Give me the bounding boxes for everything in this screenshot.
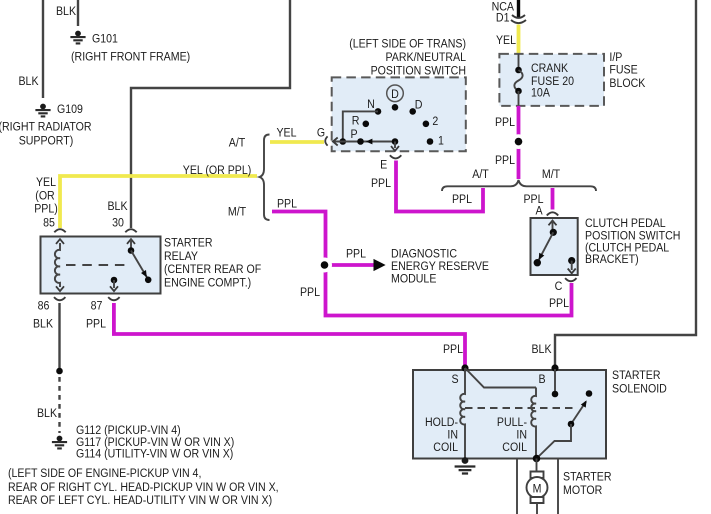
contact D center bbox=[392, 104, 399, 111]
fuse lead top bbox=[518, 54, 520, 70]
svg-text:87: 87 bbox=[91, 298, 103, 312]
fuse terminal top bbox=[515, 67, 522, 74]
svg-text:G: G bbox=[317, 126, 325, 140]
motor feed left bbox=[516, 459, 518, 514]
motor brush top bbox=[531, 472, 544, 479]
svg-text:10A: 10A bbox=[531, 86, 551, 100]
svg-text:COIL: COIL bbox=[433, 440, 458, 454]
contact P bbox=[357, 138, 364, 145]
B stub end bbox=[552, 391, 559, 398]
connector pin 85 bbox=[54, 229, 65, 232]
svg-text:YEL (OR PPL): YEL (OR PPL) bbox=[183, 163, 252, 177]
svg-text:STARTER: STARTER bbox=[164, 236, 213, 250]
contact C shaft bbox=[571, 261, 573, 270]
solenoid box bbox=[413, 370, 606, 459]
circle D indicator bbox=[387, 85, 404, 102]
solenoid switch link bbox=[537, 424, 572, 459]
fuse terminal bottom bbox=[515, 88, 522, 95]
svg-text:COIL: COIL bbox=[502, 440, 527, 454]
svg-text:B: B bbox=[538, 372, 545, 386]
clutch blade bbox=[539, 232, 553, 259]
solenoid pivot bbox=[568, 421, 575, 428]
S to pull-in link bbox=[465, 368, 536, 388]
svg-text:PPL: PPL bbox=[443, 342, 463, 356]
motor body M bbox=[527, 477, 548, 498]
svg-text:PPL: PPL bbox=[86, 317, 106, 331]
svg-text:A/T: A/T bbox=[229, 136, 246, 150]
svg-text:86: 86 bbox=[38, 298, 50, 312]
svg-text:BLOCK: BLOCK bbox=[609, 76, 646, 90]
relay blade bbox=[131, 251, 148, 280]
wire YEL (OR PPL) bbox=[60, 176, 257, 228]
svg-text:S: S bbox=[451, 372, 458, 386]
svg-text:ENGINE COMPT.): ENGINE COMPT.) bbox=[164, 276, 251, 290]
svg-text:BLK: BLK bbox=[37, 406, 58, 420]
svg-text:PPL: PPL bbox=[277, 197, 297, 211]
contact N-P junction bbox=[340, 138, 347, 145]
svg-text:(LEFT SIDE OF ENGINE-PICKUP VI: (LEFT SIDE OF ENGINE-PICKUP VIN 4, bbox=[8, 466, 201, 480]
svg-text:M: M bbox=[533, 482, 542, 496]
svg-text:PPL: PPL bbox=[371, 176, 391, 190]
svg-text:D: D bbox=[391, 87, 399, 101]
svg-text:FUSE: FUSE bbox=[609, 63, 637, 77]
svg-text:REAR OF RIGHT CYL. HEAD-PICKUP: REAR OF RIGHT CYL. HEAD-PICKUP VIN W OR … bbox=[8, 480, 279, 494]
relay blade arrow bbox=[141, 270, 147, 277]
contact 87 shaft bbox=[113, 280, 115, 288]
connector pin 30 bbox=[125, 229, 136, 232]
svg-text:(RIGHT RADIATOR: (RIGHT RADIATOR bbox=[0, 120, 92, 134]
svg-text:85: 85 bbox=[43, 216, 55, 230]
junction splice DERM bbox=[321, 261, 329, 269]
wiper arrow left bbox=[366, 139, 373, 145]
B stub bbox=[554, 369, 556, 394]
pull-in coil bbox=[531, 388, 536, 459]
svg-text:SOLENOID: SOLENOID bbox=[612, 382, 667, 396]
junction B bbox=[551, 364, 558, 371]
svg-text:R: R bbox=[352, 114, 360, 128]
clutch blade arrow bbox=[539, 253, 545, 260]
wire BLK dashed ground bbox=[58, 377, 60, 433]
wire BLK to relay 30 bbox=[131, 0, 290, 228]
svg-text:D1: D1 bbox=[496, 11, 510, 25]
fuse lead bottom bbox=[518, 91, 520, 106]
svg-text:PPL): PPL) bbox=[34, 202, 58, 216]
connector pin 87 bbox=[108, 297, 119, 300]
connector pin C bbox=[565, 278, 576, 281]
clutch switch box bbox=[531, 218, 578, 275]
relay contact 87 bbox=[111, 277, 118, 284]
svg-text:PPL: PPL bbox=[346, 247, 366, 261]
svg-text:BLK: BLK bbox=[532, 342, 553, 356]
solenoid blade bbox=[571, 402, 586, 425]
brace A/T-M/T top bbox=[442, 180, 596, 191]
wire PPL M/T trunk bbox=[272, 212, 572, 316]
contact N bbox=[375, 108, 382, 115]
connector pin A bbox=[547, 212, 558, 215]
wire N branch bbox=[343, 111, 378, 141]
pin30 shaft bbox=[130, 239, 132, 250]
svg-text:(RIGHT FRONT FRAME): (RIGHT FRONT FRAME) bbox=[71, 50, 190, 64]
svg-text:(CENTER REAR OF: (CENTER REAR OF bbox=[164, 262, 262, 276]
splice halo bbox=[317, 258, 332, 273]
connector D1 lower bbox=[511, 20, 526, 23]
svg-text:D: D bbox=[415, 98, 423, 112]
svg-text:MODULE: MODULE bbox=[391, 272, 436, 286]
splice PPL bbox=[515, 138, 523, 146]
wire YEL to fuse bbox=[517, 25, 521, 55]
contact R bbox=[363, 121, 370, 128]
wire PPL 87 to S bbox=[114, 303, 465, 366]
relay blade end bbox=[145, 277, 152, 284]
pin 87 arrow bbox=[110, 286, 118, 291]
PNP switch box bbox=[332, 77, 466, 151]
arrow to DERM bbox=[374, 260, 385, 271]
connector G arc bbox=[325, 136, 327, 145]
svg-text:BLK: BLK bbox=[19, 74, 40, 88]
wire PPL fuse out bbox=[517, 106, 521, 179]
svg-text:RELAY: RELAY bbox=[164, 249, 198, 263]
ground G112/G117/G114 bbox=[52, 436, 67, 449]
motor lead bottom bbox=[536, 503, 538, 514]
wire E drop bbox=[394, 142, 396, 149]
contact D right bbox=[409, 108, 416, 115]
svg-text:C: C bbox=[555, 279, 563, 293]
svg-text:E: E bbox=[380, 157, 387, 171]
junction 86 ground bbox=[56, 368, 63, 375]
wire YEL A/T to G bbox=[270, 140, 324, 144]
wire BLK to G101 bbox=[77, 0, 79, 26]
relay box bbox=[41, 237, 161, 294]
svg-text:(OR: (OR bbox=[35, 189, 54, 203]
motor brush bottom bbox=[531, 497, 544, 503]
svg-text:G109: G109 bbox=[57, 102, 83, 116]
solenoid armature dashed bbox=[465, 407, 575, 409]
svg-text:MOTOR: MOTOR bbox=[563, 483, 602, 497]
svg-text:M/T: M/T bbox=[542, 167, 561, 181]
svg-text:CRANK: CRANK bbox=[531, 61, 569, 75]
svg-text:PPL: PPL bbox=[549, 296, 569, 310]
svg-text:PARK/NEUTRAL: PARK/NEUTRAL bbox=[386, 50, 467, 64]
wire PPL to DERM bbox=[329, 263, 375, 267]
junction S bbox=[461, 364, 468, 371]
relay switch pivot bbox=[128, 247, 135, 254]
connector pin 86 bbox=[54, 297, 65, 300]
contact 1 bbox=[427, 138, 434, 145]
relay coil R1 bbox=[55, 243, 60, 287]
svg-text:M/T: M/T bbox=[228, 205, 247, 219]
svg-text:STARTER: STARTER bbox=[612, 368, 661, 382]
svg-text:SUPPORT): SUPPORT) bbox=[19, 134, 74, 148]
ground G109 bbox=[35, 104, 50, 117]
ground solenoid bbox=[455, 457, 476, 473]
wire BLK from 86 bbox=[58, 303, 60, 371]
connector pin E bbox=[390, 155, 401, 158]
pin K arrow bbox=[333, 138, 338, 146]
svg-text:BLK: BLK bbox=[56, 4, 77, 18]
svg-text:YEL: YEL bbox=[36, 175, 56, 189]
fuse element CRANK FUSE bbox=[514, 70, 522, 91]
svg-text:BLK: BLK bbox=[108, 199, 129, 213]
svg-text:BLK: BLK bbox=[33, 317, 54, 331]
connector D1 upper bbox=[512, 15, 525, 18]
pin A arrow bbox=[549, 221, 557, 226]
svg-text:A/T: A/T bbox=[472, 167, 489, 181]
svg-text:PPL: PPL bbox=[495, 153, 515, 167]
clutch pivot bbox=[550, 229, 557, 236]
wire BLK to B bbox=[555, 0, 696, 366]
pin A shaft bbox=[552, 220, 554, 232]
pin E arrow bbox=[391, 146, 399, 151]
pin 30 arrow bbox=[127, 239, 135, 244]
wire P row bbox=[334, 141, 395, 143]
motor feed right bbox=[557, 459, 559, 514]
pin C arrow bbox=[568, 269, 576, 274]
wire from ignition NCA bbox=[517, 0, 520, 18]
svg-text:P: P bbox=[350, 127, 357, 141]
svg-text:YEL: YEL bbox=[277, 126, 297, 140]
svg-text:REAR OF LEFT CYL. HEAD-UTILITY: REAR OF LEFT CYL. HEAD-UTILITY VIN W OR … bbox=[8, 493, 272, 507]
contact E junction bbox=[392, 138, 399, 145]
svg-text:PPL: PPL bbox=[300, 285, 320, 299]
pin 85 arrow bbox=[56, 239, 64, 244]
svg-text:A: A bbox=[535, 204, 543, 218]
wire PPL E to A/T bbox=[396, 161, 483, 212]
splice halo 2 bbox=[511, 134, 526, 149]
relay armature dashed bbox=[66, 264, 130, 266]
ground G101 bbox=[70, 31, 85, 44]
svg-text:BRACKET): BRACKET) bbox=[585, 252, 639, 266]
contact 2 bbox=[423, 121, 430, 128]
brace A/T-M/T left bbox=[260, 135, 270, 221]
svg-text:PPL: PPL bbox=[452, 192, 472, 206]
svg-text:2: 2 bbox=[432, 114, 438, 128]
svg-text:PPL: PPL bbox=[495, 115, 515, 129]
svg-text:STARTER: STARTER bbox=[563, 470, 612, 484]
svg-text:G114 (UTILITY-VIN W OR VIN X): G114 (UTILITY-VIN W OR VIN X) bbox=[76, 447, 233, 461]
clutch contact C bbox=[568, 257, 575, 264]
solenoid blade arrow bbox=[581, 400, 587, 407]
wire PPL M/T to clutch A bbox=[551, 188, 555, 210]
wire BLK to G109 bbox=[42, 0, 44, 98]
motor lead top bbox=[536, 459, 538, 472]
hold-in coil bbox=[460, 368, 465, 459]
pin 86 arrow bbox=[56, 286, 64, 291]
svg-text:N: N bbox=[367, 97, 375, 111]
svg-text:1: 1 bbox=[438, 134, 444, 148]
clutch blade end bbox=[534, 259, 541, 266]
svg-text:POSITION SWITCH: POSITION SWITCH bbox=[371, 64, 466, 78]
svg-text:(LEFT SIDE OF TRANS): (LEFT SIDE OF TRANS) bbox=[349, 37, 466, 51]
I/P fuse block box bbox=[499, 54, 604, 106]
svg-text:30: 30 bbox=[112, 216, 124, 230]
solenoid bottom junction bbox=[533, 455, 541, 463]
solenoid contact top bbox=[586, 390, 593, 397]
svg-text:YEL: YEL bbox=[496, 33, 516, 47]
svg-text:G101: G101 bbox=[92, 32, 118, 46]
